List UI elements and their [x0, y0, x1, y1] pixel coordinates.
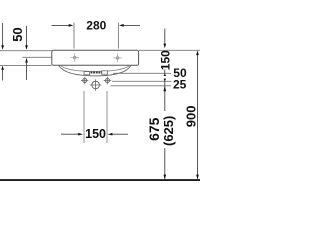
- svg-text:675: 675: [146, 117, 162, 141]
- svg-text:280: 280: [86, 18, 106, 32]
- dimension chain right: shaft below 150 label: [164, 70, 166, 76]
- dimension 50 left: down arrow at rim line: [25, 45, 28, 50]
- bowl outer curve: [59, 65, 132, 76]
- dimension 150 bottom: right tail wire: [110, 133, 128, 135]
- dimension 150 bottom: right extension line: [106, 91, 108, 143]
- wire: left reference line, basin bottom level: [0, 64, 52, 66]
- dimension 675: up arrow at drain line: [163, 86, 166, 91]
- dimension 150 bottom: left extension line: [83, 91, 85, 143]
- dimension 50 left: shaft above: [26, 26, 28, 46]
- drain hole circle: [90, 79, 101, 91]
- dimension 150 bottom: left-pointing arrow: [108, 133, 113, 136]
- dimension left outer: shaft above: [2, 23, 4, 46]
- dimension 675: lower shaft: [164, 148, 166, 179]
- dimension 150 right: down arrow at rim line: [163, 44, 166, 49]
- dimension 280: right extension line: [117, 23, 119, 49]
- fixing hole left: [81, 77, 88, 84]
- fixing hole right: [104, 77, 111, 84]
- dimension 280: right-pointing arrow: [69, 24, 74, 27]
- svg-text:150: 150: [85, 127, 106, 141]
- dimension 280: left extension line: [73, 23, 75, 49]
- wire: left reference line, tap deck level: [22, 56, 52, 58]
- floor line: [0, 179, 200, 181]
- mounting cross right: [113, 54, 121, 62]
- dimension 150 bottom: right-pointing arrow: [78, 133, 83, 136]
- dimension left outer: down arrow at rim line: [1, 45, 4, 50]
- dimension 50 left: shaft below: [26, 62, 28, 81]
- dimension 50 left: up arrow at tap deck line: [25, 58, 28, 63]
- dimension 280: left-pointing arrow: [119, 24, 124, 27]
- overflow box left: [84, 72, 90, 75]
- dimension chain right: shaft through 50/25 spans: [164, 79, 166, 111]
- wire: drain level reference line: [111, 85, 172, 87]
- dimension left outer: up arrow at basin bottom line: [1, 66, 4, 70]
- bowl inner curve: [61, 65, 130, 71]
- wire: left reference line, rim level: [0, 50, 52, 52]
- wire: rim level extension to the right: [139, 49, 200, 51]
- basin body rectangle: [52, 50, 139, 65]
- dashed overflow strip: [91, 72, 102, 74]
- svg-text:150: 150: [158, 50, 172, 70]
- dimension 675: down arrow at floor: [163, 175, 166, 180]
- overflow box right: [102, 71, 108, 74]
- dimension 150 bottom: left tail wire: [61, 133, 81, 135]
- svg-text:25: 25: [173, 78, 187, 92]
- dimension 900: shaft: [197, 52, 199, 179]
- svg-text:50: 50: [10, 27, 25, 41]
- svg-text:900: 900: [184, 105, 199, 127]
- dimension 25 right: down arrow at holes line: [164, 79, 167, 82]
- dimension chain right: top shaft: [164, 29, 166, 45]
- dimension 280: left tail wire: [52, 24, 71, 26]
- dimension left outer: shaft below: [2, 70, 4, 81]
- dimension 150 right: up arrow at overflow line: [164, 74, 167, 77]
- wire: fixing holes level reference line: [112, 80, 172, 82]
- dimension 900: up arrow at rim line: [196, 50, 199, 55]
- dimension 900: down arrow at floor: [196, 175, 199, 180]
- mounting cross left: [71, 53, 79, 61]
- dimension 280: right tail wire: [122, 24, 141, 26]
- wire: overflow level reference line: [113, 72, 171, 74]
- svg-text:(625): (625): [161, 116, 176, 146]
